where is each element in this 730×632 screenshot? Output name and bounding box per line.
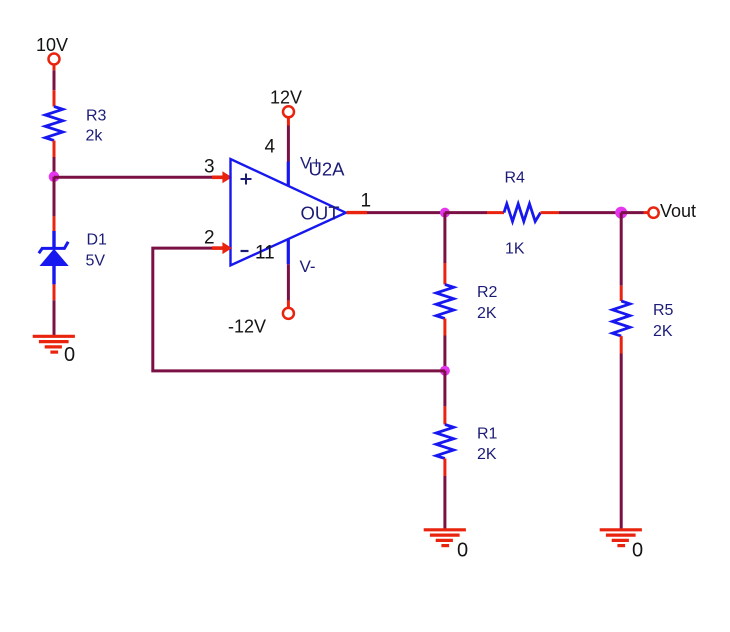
- wire D1 to left ground: [53, 300, 56, 335]
- power terminal 10V: [36, 35, 68, 65]
- wire 10V terminal to R3: [53, 65, 56, 90]
- svg-text:3: 3: [204, 157, 215, 178]
- wire V- pin to -12V: [287, 264, 290, 307]
- feedback wire node D to op-amp pin 2: [153, 242, 445, 371]
- wire R3 to node A: [53, 157, 56, 177]
- svg-text:Vout: Vout: [660, 201, 696, 221]
- wire node A to D1: [53, 177, 56, 217]
- V+ pin stub: [287, 162, 290, 187]
- resistor R1: [436, 425, 497, 464]
- power terminal 12V: [270, 88, 302, 118]
- svg-text:R3: R3: [86, 108, 107, 125]
- wire node C to Vout terminal: [621, 211, 648, 214]
- wire node A to op-amp pin 3: [54, 171, 232, 183]
- svg-text:4: 4: [265, 137, 276, 158]
- power terminal -12V: [228, 308, 294, 337]
- svg-text:R2: R2: [477, 284, 498, 301]
- ground 0 middle: [424, 530, 468, 562]
- svg-text:0: 0: [457, 540, 468, 562]
- svg-text:12V: 12V: [270, 88, 302, 108]
- svg-text:V+: V+: [300, 154, 321, 173]
- svg-text:R1: R1: [477, 426, 498, 443]
- op-amp U2A: [231, 159, 346, 266]
- svg-text:2k: 2k: [86, 128, 104, 145]
- svg-text:1K: 1K: [505, 241, 525, 258]
- ground 0 right: [600, 530, 643, 562]
- node A junction: [49, 171, 60, 182]
- svg-text:5V: 5V: [86, 253, 106, 270]
- V- pin stub: [287, 239, 290, 264]
- svg-text:2K: 2K: [477, 446, 497, 463]
- resistor R2: [436, 284, 497, 322]
- terminal Vout: [648, 201, 696, 221]
- wire node C to R5: [620, 213, 623, 301]
- svg-text:R4: R4: [505, 169, 526, 186]
- svg-text:0: 0: [632, 540, 643, 562]
- resistor R4: [504, 169, 541, 257]
- svg-text:R5: R5: [653, 302, 674, 319]
- zener diode D1: [39, 216, 107, 300]
- svg-text:V-: V-: [300, 257, 316, 276]
- wire R1 to middle ground: [443, 459, 446, 529]
- wire 12V to V+ pin: [287, 118, 290, 162]
- resistor R5: [612, 301, 673, 340]
- wire node B to R2: [443, 213, 446, 285]
- wire node B to R4: [445, 211, 504, 214]
- node B output junction: [440, 208, 450, 218]
- svg-text:0: 0: [64, 344, 75, 366]
- resistor R3: [45, 90, 106, 157]
- wire op-amp output to node B: [347, 211, 445, 214]
- wire R4 to node C: [541, 211, 622, 214]
- ground 0 left: [33, 336, 75, 366]
- node D feedback junction: [440, 366, 450, 376]
- wire node D to R1: [443, 371, 446, 425]
- node C Vout junction: [615, 207, 627, 219]
- svg-text:1: 1: [361, 191, 372, 212]
- svg-text:2K: 2K: [653, 323, 673, 340]
- svg-text:D1: D1: [87, 232, 108, 249]
- wire R5 to right ground: [620, 336, 623, 528]
- svg-text:10V: 10V: [36, 35, 68, 55]
- wire R2 to node D: [443, 319, 446, 371]
- svg-text:OUT: OUT: [301, 203, 340, 224]
- svg-text:-12V: -12V: [228, 317, 266, 337]
- svg-text:11: 11: [255, 243, 275, 264]
- svg-text:2: 2: [204, 228, 215, 249]
- svg-text:2K: 2K: [477, 305, 497, 322]
